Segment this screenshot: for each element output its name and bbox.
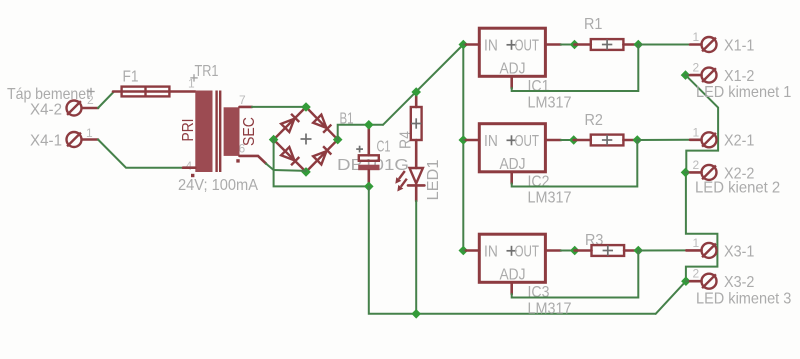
svg-text:F1: F1 (123, 69, 139, 86)
svg-text:ADJ: ADJ (500, 266, 526, 283)
wire DC- node to bottom corner (274, 169, 306, 172)
svg-text:IC3: IC3 (528, 284, 550, 301)
svg-text:X3-1: X3-1 (724, 243, 754, 260)
junction bridge left (269, 135, 279, 145)
svg-text:1: 1 (693, 126, 700, 140)
svg-text:LM317: LM317 (528, 94, 572, 111)
svg-text:X1-1: X1-1 (724, 37, 754, 54)
wire DC- down and right to C1 bottom (274, 170, 369, 186)
primary winding (195, 91, 212, 173)
svg-text:R2: R2 (585, 112, 603, 129)
wire OUT stub IC3 (545, 249, 560, 252)
pin stub X4-2 (82, 107, 98, 110)
wire OUT stub IC2 (545, 139, 560, 142)
wire OUT stub IC1 (545, 43, 560, 46)
junction R3 left (570, 246, 580, 256)
svg-text:LED kimenet 3: LED kimenet 3 (696, 291, 791, 308)
pin stub X4-1 (82, 138, 98, 141)
junction LED rail (411, 309, 421, 319)
origin cross X4-2 (87, 88, 94, 95)
svg-text:OUT: OUT (515, 243, 540, 260)
svg-text:ADJ: ADJ (500, 156, 526, 173)
svg-text:OUT: OUT (515, 37, 540, 54)
junction supply IC3 (459, 246, 469, 256)
junction C1 top (364, 120, 374, 130)
terminal X4-2 (67, 101, 82, 116)
bridge edges (274, 107, 338, 172)
IC2 plus mark (507, 135, 517, 145)
svg-text:PRI: PRI (180, 119, 197, 142)
svg-text:1: 1 (693, 236, 700, 250)
svg-text:X4-2: X4-2 (30, 102, 62, 119)
wire TR1 pin7 stub (240, 106, 253, 109)
svg-text:1: 1 (693, 30, 700, 44)
svg-text:2: 2 (693, 267, 700, 281)
terminal X2-2 (681, 168, 691, 178)
wire R1 to X1-1 (638, 44, 690, 46)
IC3 plus mark (507, 246, 517, 256)
LED arrows (395, 171, 407, 192)
op-amp U IC2 box (479, 124, 545, 172)
svg-text:TR1: TR1 (195, 63, 219, 80)
svg-text:2: 2 (693, 158, 700, 172)
wire ADJ feedback IC2 (510, 172, 513, 184)
diode D-bottomleft (281, 147, 299, 165)
junction bridge bottom (301, 167, 311, 177)
junction supply IC1 (459, 40, 469, 50)
wire DC+ right corner up and right (338, 125, 383, 140)
svg-text:R3: R3 (585, 232, 603, 249)
junction R2 left (569, 135, 579, 145)
junction bridge right (333, 135, 343, 145)
wire IN stub IC2 (463, 139, 468, 141)
wire DC- node: left corner down (273, 140, 275, 170)
secondary winding (224, 107, 240, 156)
wire X4-1 to TR1 pin4 (98, 140, 183, 168)
svg-text:7: 7 (239, 93, 246, 107)
wire diagonal to supply node (383, 45, 463, 125)
wire ground rail (369, 186, 656, 313)
junction R4 top (411, 87, 421, 97)
wire TR1 pin4 red stub (183, 166, 195, 169)
svg-text:IN: IN (484, 133, 498, 150)
svg-text:1: 1 (188, 77, 195, 91)
svg-text:IN: IN (484, 243, 498, 260)
wire supply vertical (462, 45, 464, 251)
svg-text:X4-1: X4-1 (30, 133, 62, 150)
svg-text:ADJ: ADJ (500, 60, 526, 77)
wire IN stub IC3 (463, 250, 468, 252)
diode D-bottomright (313, 146, 331, 164)
wire rail diagonal to X3-2 (656, 281, 686, 314)
svg-text:R1: R1 (584, 16, 602, 33)
wire return chain X1-2 to X2-2 (686, 75, 719, 172)
fuse F1 (113, 87, 195, 97)
origin mark secondary (236, 159, 239, 162)
terminal X3-1 (686, 249, 701, 252)
svg-text:OUT: OUT (515, 133, 540, 150)
svg-text:LM317: LM317 (528, 190, 572, 207)
origin cross TR1 (190, 74, 197, 81)
svg-text:4: 4 (186, 159, 193, 173)
terminal X4-1 (67, 132, 82, 147)
svg-text:LED kimenet 1: LED kimenet 1 (696, 84, 791, 101)
origin mark primary (191, 174, 194, 177)
svg-text:1: 1 (86, 126, 93, 140)
wire TR1 pin6 stub (240, 156, 267, 164)
svg-text:LED kienet 2: LED kienet 2 (695, 180, 780, 197)
junction C1 bottom rail (364, 182, 374, 192)
junction supply IC2 (459, 135, 469, 145)
junction R3 right (634, 246, 644, 256)
IC1 plus mark (507, 40, 517, 50)
svg-text:LM317: LM317 (528, 301, 572, 318)
plus mark C1 (356, 146, 363, 153)
plus mark R2 (602, 135, 612, 145)
op-amp U IC3 box (479, 234, 545, 282)
svg-text:C1: C1 (377, 139, 391, 156)
plus mark R1 (602, 39, 612, 49)
junction R1 left (570, 40, 580, 50)
op-amp U IC1 box (479, 28, 545, 76)
plus mark R4 (411, 118, 421, 128)
diode D-topright (313, 115, 331, 133)
plus mark bridge center (301, 134, 312, 145)
svg-text:LED1: LED1 (425, 159, 442, 200)
terminal X2-1 (690, 139, 702, 142)
plus mark R3 (603, 245, 613, 255)
svg-text:2: 2 (693, 61, 700, 75)
svg-text:24V; 100mA: 24V; 100mA (178, 177, 258, 194)
svg-text:X2-1: X2-1 (724, 133, 754, 150)
core lines (215, 91, 217, 173)
junction R1 right (634, 40, 644, 50)
wire R2 to X2-1 (637, 139, 690, 141)
wire ADJ feedback IC1 (510, 76, 513, 88)
wire IN stub IC1 (463, 44, 468, 46)
wire LED1 to rail (415, 201, 417, 314)
svg-text:IC1: IC1 (528, 78, 550, 95)
wire ADJ feedback IC3 (510, 282, 513, 294)
wire pin7 to bridge top (252, 106, 306, 108)
junction R2 right (633, 135, 643, 145)
svg-text:IN: IN (484, 37, 498, 54)
svg-text:X3-2: X3-2 (724, 274, 754, 291)
terminal X1-1 (690, 43, 702, 46)
junction bridge top (301, 102, 311, 112)
terminal X1-2 (681, 70, 691, 80)
diode D-topleft (281, 114, 299, 132)
svg-text:IC2: IC2 (528, 173, 550, 190)
wire pin6 to DC node (266, 164, 274, 170)
svg-text:X1-2: X1-2 (724, 68, 754, 85)
wire R3 to X3-1 (638, 249, 686, 251)
terminal X3-2 (681, 276, 691, 286)
svg-text:SEC: SEC (241, 117, 258, 146)
wire X4-2 to fuse (98, 92, 114, 109)
wire return chain X2-2 to X3-2 (686, 172, 718, 281)
